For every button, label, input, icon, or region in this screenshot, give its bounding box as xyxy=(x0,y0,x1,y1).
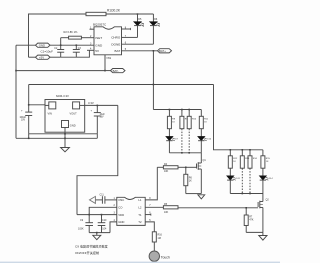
resistor R5 xyxy=(163,206,178,209)
touch pad xyxy=(149,251,159,261)
ground symbol Q2 xyxy=(262,232,264,235)
IC U1 pin stubs xyxy=(121,28,123,30)
node GND rail junction xyxy=(15,70,17,72)
wire GND net xyxy=(16,44,36,46)
diode LED bank1a xyxy=(166,137,172,141)
svg-text:GND: GND xyxy=(95,43,103,47)
svg-text:C10: C10 xyxy=(102,219,107,222)
wire VOUT inside xyxy=(80,104,85,106)
diode LED D5 xyxy=(137,14,139,22)
transistor Q1 xyxy=(200,153,202,163)
svg-text:OSC: OSC xyxy=(118,198,124,202)
wire R1 to LEDs xyxy=(106,13,153,15)
svg-text:R11: R11 xyxy=(204,119,209,121)
resistor R1 xyxy=(86,12,106,15)
IC U3 touch box xyxy=(117,197,145,225)
wire Q2 source to gnd xyxy=(246,231,263,233)
svg-text:R10: R10 xyxy=(192,119,197,121)
svg-text:C3: C3 xyxy=(78,48,82,50)
resistor R9 branch dashed xyxy=(181,110,183,117)
resistor R4 xyxy=(157,166,163,168)
diode LED D6 xyxy=(152,14,154,22)
svg-text:10uF: 10uF xyxy=(100,114,106,116)
wire pin7 lead to R5 xyxy=(146,206,164,208)
svg-text:R2 6.8K 1%: R2 6.8K 1% xyxy=(64,30,79,34)
node BAT junction xyxy=(153,50,155,52)
arrow left xyxy=(90,196,96,203)
resistor R6 xyxy=(185,167,187,174)
svg-text:Touch: Touch xyxy=(161,256,170,260)
svg-text:6206-3.3V: 6206-3.3V xyxy=(56,94,69,98)
resistor R16 touch xyxy=(152,232,156,242)
resistor R13 branch dashed xyxy=(241,150,243,156)
svg-text:Q1: Q1 xyxy=(203,159,207,162)
svg-text:D7: D7 xyxy=(175,139,179,141)
wire pin7 CHRG to LED1 xyxy=(122,36,138,38)
wire left bank feed xyxy=(153,109,201,111)
svg-text:D14: D14 xyxy=(269,178,274,180)
svg-text:VOUT: VOUT xyxy=(70,112,78,116)
svg-text:104: 104 xyxy=(102,228,107,231)
wire gnd rail touch xyxy=(89,232,110,234)
svg-text:L1: L1 xyxy=(138,198,142,202)
svg-text:103K: 103K xyxy=(78,228,84,231)
wire GND rail lower xyxy=(16,137,97,139)
wire 3.3V down to touch section xyxy=(77,105,118,214)
node rail junctions xyxy=(28,138,30,140)
transistor Q2 xyxy=(262,194,264,202)
node bank2 branches xyxy=(230,149,232,151)
wire 5V to caps bottom xyxy=(29,56,36,58)
svg-text:DONE: DONE xyxy=(111,42,120,46)
wire pin5 lead to touch xyxy=(146,222,155,232)
wire pin1 stub xyxy=(90,28,95,30)
svg-text:CHRG: CHRG xyxy=(111,36,121,40)
pin GND square xyxy=(62,121,69,128)
svg-text:VIN: VIN xyxy=(48,112,52,116)
svg-text:BQ2057C: BQ2057C xyxy=(93,23,107,27)
svg-text:47K: 47K xyxy=(249,219,254,222)
resistor R7 xyxy=(245,208,247,215)
wire VIN lead xyxy=(29,104,45,106)
svg-text:D6: D6 xyxy=(154,18,158,21)
node VIN junction xyxy=(28,104,30,106)
node R2 junction xyxy=(60,44,62,46)
net tag BAT- xyxy=(105,70,111,72)
wire VSS net xyxy=(16,55,105,71)
svg-text:+: + xyxy=(91,109,93,113)
svg-text:D11: D11 xyxy=(236,178,241,180)
resistor R10 branch dashed xyxy=(188,110,190,117)
svg-text:+: + xyxy=(21,109,23,113)
wire left GND rail xyxy=(15,45,17,138)
wire BAT+ down xyxy=(152,51,154,110)
svg-text:L2: L2 xyxy=(138,206,142,210)
pin VOUT square xyxy=(73,102,80,109)
svg-text:BAT: BAT xyxy=(115,49,121,53)
bottom border xyxy=(0,262,280,263)
svg-text:BAT-: BAT- xyxy=(113,69,119,73)
node bank1 branches xyxy=(169,109,171,111)
wire right bank feed xyxy=(214,85,263,150)
wire pin6 stub xyxy=(146,214,151,216)
ground symbol regulator xyxy=(61,148,70,152)
wire pin4 lead xyxy=(87,49,94,51)
wire pin6 DONE to LED2 xyxy=(122,43,154,45)
wire Q2 gate long xyxy=(178,207,258,209)
node C8 junction xyxy=(97,105,99,107)
svg-text:1K: 1K xyxy=(172,122,175,124)
node LED1 top xyxy=(137,13,139,15)
svg-text:C11: C11 xyxy=(100,194,105,197)
svg-text:R15: R15 xyxy=(266,158,271,160)
svg-text:5: 5 xyxy=(149,219,151,222)
wire VOUT 3.3V xyxy=(85,104,118,106)
capacitor C3 xyxy=(75,45,77,49)
svg-text:R1Ω0.2K: R1Ω0.2K xyxy=(107,9,121,13)
svg-text:ON/OFF开关控制: ON/OFF开关控制 xyxy=(75,250,99,255)
svg-text:1K: 1K xyxy=(233,161,236,163)
svg-text:VDD: VDD xyxy=(118,213,124,217)
diode LED bank1b xyxy=(198,137,204,141)
net tag GND input xyxy=(36,43,51,47)
wire Q1 gate xyxy=(186,166,197,168)
wire 5V long rail xyxy=(29,84,214,86)
svg-text:1: 1 xyxy=(114,197,116,200)
capacitor C8 xyxy=(96,105,98,112)
svg-text:3: 3 xyxy=(114,212,116,215)
svg-text:10K: 10K xyxy=(164,211,169,214)
net tag 5V input xyxy=(36,55,51,59)
capacitor C9 xyxy=(85,222,93,224)
wire VDD 3.3V lead xyxy=(77,214,117,216)
pin VIN square xyxy=(49,102,56,109)
wire pin1 OSC lead xyxy=(105,199,117,201)
resistor R8 branch xyxy=(168,110,170,117)
svg-text:1K: 1K xyxy=(189,180,192,183)
resistor R14 branch dashed xyxy=(249,150,251,156)
svg-text:10K: 10K xyxy=(164,170,169,173)
wire pin2 lead xyxy=(81,37,94,39)
svg-text:GND: GND xyxy=(118,220,124,224)
capacitor C10 xyxy=(101,215,103,223)
svg-text:4: 4 xyxy=(114,219,116,222)
wire GND rail mid xyxy=(29,133,98,135)
svg-text:ISET: ISET xyxy=(95,36,102,40)
wire bank1 bottom xyxy=(169,152,201,154)
svg-text:R14: R14 xyxy=(253,158,258,160)
svg-text:1M: 1M xyxy=(158,237,161,240)
wire pin2 lead xyxy=(89,207,117,222)
svg-text:C9: C9 xyxy=(80,219,84,222)
svg-text:T2: T2 xyxy=(138,220,142,224)
svg-text:C9 电容调节触摸灵敏度: C9 电容调节触摸灵敏度 xyxy=(75,244,108,249)
wire pin5 BAT xyxy=(122,50,158,52)
regulator U2 box xyxy=(45,100,85,133)
capacitor C2 xyxy=(60,45,62,49)
net tag BAT+ xyxy=(158,49,172,53)
capacitor C7 xyxy=(25,111,32,113)
diode LED bank2a xyxy=(227,176,233,180)
svg-text:D10: D10 xyxy=(207,139,212,141)
svg-text:7: 7 xyxy=(149,204,151,207)
wire VIN inside xyxy=(45,104,49,106)
svg-text:+5V: +5V xyxy=(39,55,44,59)
svg-text:1K: 1K xyxy=(204,122,207,124)
svg-text:8: 8 xyxy=(149,197,151,200)
svg-text:1K: 1K xyxy=(266,161,269,163)
svg-text:R12: R12 xyxy=(233,158,238,160)
wire input cap branch xyxy=(28,85,30,113)
svg-text:2: 2 xyxy=(114,204,116,207)
svg-text:10V: 10V xyxy=(21,120,26,122)
ground symbol touch xyxy=(96,233,98,236)
wire GND pin down xyxy=(64,128,66,148)
svg-text:3.3V: 3.3V xyxy=(88,101,94,105)
svg-text:GND: GND xyxy=(39,43,45,47)
svg-text:100uF: 100uF xyxy=(20,117,27,119)
wire pin8 stub xyxy=(122,28,131,30)
diode LED bank2b xyxy=(260,176,266,180)
capacitor C11 xyxy=(101,196,103,204)
svg-text:R8: R8 xyxy=(172,119,176,121)
svg-text:BAT+: BAT+ xyxy=(159,49,166,53)
resistor R11 branch xyxy=(200,110,202,117)
resistor R15 branch xyxy=(262,150,264,156)
node rail crossing xyxy=(153,84,155,86)
svg-text:C1=10uF: C1=10uF xyxy=(41,50,54,54)
wire 5V top rail xyxy=(29,14,87,57)
node C3 junction xyxy=(76,44,78,46)
ground symbol Q1 xyxy=(198,195,205,199)
op-amp U1 charger IC box xyxy=(94,27,122,55)
wire pin4 lead xyxy=(110,222,117,233)
svg-text:VSS: VSS xyxy=(106,57,111,60)
svg-text:16V: 16V xyxy=(100,117,105,119)
wire bank2 bottom xyxy=(230,193,263,195)
resistor R12 branch xyxy=(229,150,231,156)
wire Q1 source to gnd xyxy=(186,193,202,195)
svg-text:GND: GND xyxy=(70,124,76,128)
svg-text:D5: D5 xyxy=(138,18,142,21)
wire pin8 lead to R4 xyxy=(146,167,158,200)
svg-text:T1: T1 xyxy=(138,213,142,217)
svg-text:Q2: Q2 xyxy=(266,199,270,202)
resistor R2 xyxy=(69,36,82,39)
